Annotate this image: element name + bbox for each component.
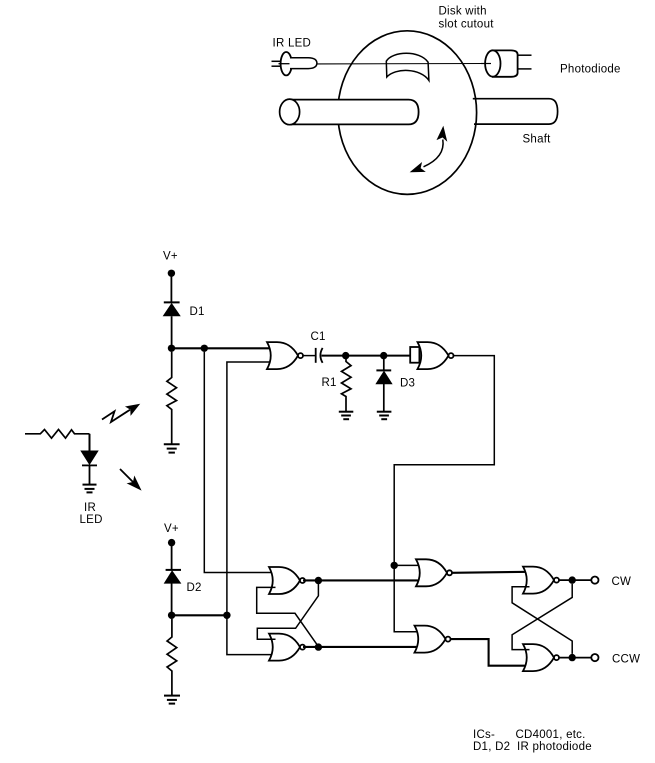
IR LED lamp flange midline bbox=[279, 63, 290, 65]
svg-text:R1: R1 bbox=[322, 377, 337, 389]
disk ellipse bbox=[338, 31, 477, 195]
node B wire (thick) bbox=[172, 614, 227, 616]
capacitor C1 bbox=[316, 348, 323, 363]
svg-text:D1, D2: D1, D2 bbox=[473, 741, 510, 753]
label IR LED (emitter) bbox=[80, 502, 103, 526]
svg-text:IR: IR bbox=[84, 502, 96, 514]
ground (LED) bbox=[83, 485, 97, 493]
IR LED lamp leads bbox=[272, 61, 283, 66]
junction dot CCW bbox=[569, 654, 576, 661]
terminal circle CW bbox=[591, 577, 598, 584]
node A wire (thick to NOR1 input) bbox=[172, 347, 274, 349]
rotation arrow head (down-left) bbox=[411, 163, 425, 172]
wire resistor to LED bbox=[89, 434, 91, 451]
ground (D1 load) bbox=[164, 444, 180, 452]
label: Disk with slot cutout bbox=[439, 5, 495, 30]
photodiode D1 bbox=[163, 302, 180, 315]
junction dot U2a output bbox=[315, 577, 322, 584]
svg-text:CW: CW bbox=[612, 576, 632, 588]
svg-text:CD4001, etc.: CD4001, etc. bbox=[516, 729, 586, 741]
rotation arrow head (up) bbox=[437, 127, 446, 141]
svg-text:Disk with: Disk with bbox=[439, 5, 487, 17]
junction dot node B bbox=[168, 612, 175, 619]
light ray arrow (down toward D2) bbox=[120, 469, 141, 490]
wire V+ to D2 bbox=[171, 546, 173, 570]
wire LED to ground bbox=[89, 466, 91, 484]
op NOR gate U2b bbox=[269, 634, 305, 661]
wire C1 to D3 node to U1b bbox=[322, 355, 411, 357]
op NOR gate U3a bbox=[523, 567, 559, 594]
wire D2 to node bbox=[171, 584, 173, 613]
ground (D2 load) bbox=[164, 696, 180, 704]
wire NOR1 lower input down to D2 node and gate U2b input bbox=[227, 362, 275, 655]
wire U3b output to CCW terminal bbox=[559, 657, 591, 659]
wire U2a output to U2c bbox=[303, 579, 422, 581]
wire U1a output to C1 bbox=[303, 355, 316, 357]
terminal circle CCW bbox=[591, 654, 598, 661]
junction dot (D3 node) bbox=[380, 352, 387, 359]
LED (IR emitter) bbox=[81, 451, 98, 466]
photodiode leads bbox=[519, 55, 532, 69]
ground (D3) bbox=[377, 412, 392, 420]
wire U3a output to CW terminal bbox=[559, 579, 591, 581]
resistor (D1 load) bbox=[167, 352, 177, 444]
footnote parts list bbox=[473, 729, 592, 753]
wire U2c output to U3a input bbox=[452, 572, 529, 573]
svg-text:D3: D3 bbox=[400, 377, 415, 389]
svg-text:C1: C1 bbox=[311, 331, 326, 343]
slot cutout bbox=[386, 53, 429, 80]
V+ terminal dot bbox=[168, 270, 175, 277]
diode D3 bbox=[376, 356, 392, 412]
resistor (D2 load) bbox=[167, 619, 177, 696]
svg-text:D1: D1 bbox=[190, 306, 205, 318]
wire CW cross to U3b upper input bbox=[512, 584, 572, 650]
ground (R1) bbox=[339, 412, 354, 420]
wire V+ to D1 bbox=[170, 276, 172, 302]
junction dot node B2 bbox=[223, 612, 230, 619]
op NOR gate U1b (inputs tied) bbox=[410, 342, 453, 369]
V+ terminal dot (lower) bbox=[168, 539, 175, 546]
op NOR gate U3b bbox=[523, 644, 559, 671]
left shaft bbox=[280, 99, 419, 125]
svg-text:CCW: CCW bbox=[612, 654, 640, 666]
light ray arrow (up toward D1) bbox=[102, 405, 139, 423]
photodiode body bbox=[492, 50, 518, 76]
svg-text:V+: V+ bbox=[164, 523, 179, 535]
junction dot node A bbox=[168, 345, 175, 352]
wire CCW cross to U3a lower input bbox=[512, 587, 572, 654]
op NOR gate U2a bbox=[269, 567, 305, 594]
wire node A2 down to gate U2a input bbox=[204, 352, 275, 573]
op NOR gate U1a bbox=[267, 342, 303, 369]
svg-text:Photodiode: Photodiode bbox=[560, 64, 621, 76]
junction dot (R1 node) bbox=[342, 352, 349, 359]
svg-text:Shaft: Shaft bbox=[523, 134, 552, 146]
resistor (LED series, horizontal) bbox=[25, 430, 90, 439]
svg-text:D2: D2 bbox=[187, 582, 202, 594]
rotation arrow arc bbox=[424, 140, 444, 167]
junction dot U2b output bbox=[315, 643, 322, 650]
photodiode lens ellipse bbox=[485, 50, 500, 76]
junction dot feedback node bbox=[391, 562, 398, 569]
svg-text:IR LED: IR LED bbox=[273, 38, 312, 50]
IR LED lamp body bbox=[290, 58, 317, 69]
wire U2b output cross to U2a lower input bbox=[257, 587, 319, 646]
resistor R1 bbox=[342, 356, 352, 412]
svg-text:ICs-: ICs- bbox=[473, 729, 495, 741]
svg-text:LED: LED bbox=[80, 514, 103, 526]
junction dot node A2 bbox=[201, 345, 208, 352]
photodiode lens beam stub bbox=[481, 63, 491, 65]
wire U2b output to U2d bbox=[303, 646, 421, 648]
svg-text:IR photodiode: IR photodiode bbox=[517, 741, 592, 753]
IR beam line bbox=[317, 63, 486, 65]
wire U2d output to U3b input bbox=[451, 639, 530, 666]
op NOR gate U2c bbox=[416, 559, 452, 586]
wire U1b output feedback to lower gates bbox=[394, 356, 494, 632]
IR LED lamp flange bbox=[281, 52, 292, 75]
wire feedback node to U2c input bbox=[394, 564, 422, 566]
op NOR gate U2d bbox=[415, 626, 451, 653]
junction dot CW bbox=[569, 576, 576, 583]
svg-text:slot cutout: slot cutout bbox=[439, 18, 495, 30]
right shaft bbox=[473, 99, 558, 124]
svg-text:V+: V+ bbox=[163, 250, 178, 262]
photodiode D2 bbox=[164, 570, 181, 583]
wire U2a output cross to U2b upper input bbox=[257, 581, 318, 639]
wire D1 to node bbox=[171, 316, 173, 345]
